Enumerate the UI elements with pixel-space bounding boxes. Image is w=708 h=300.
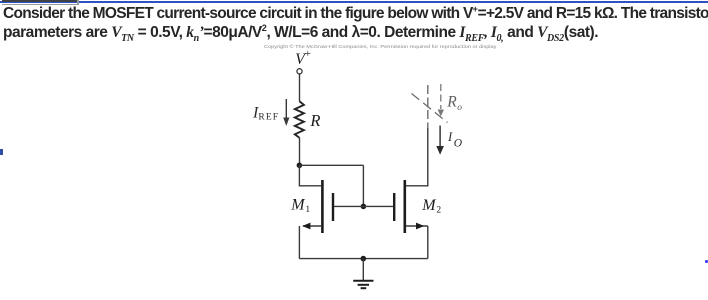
gray tick at segment end [77, 0, 79, 5]
wire M2 drain up [406, 128, 428, 186]
svg-text:2: 2 [436, 206, 441, 216]
Ro dashed current arrow [438, 84, 444, 117]
IREF current arrow [283, 99, 289, 126]
wire node A down to M1 drain [299, 165, 321, 186]
wire M2 source down [427, 226, 429, 259]
wire resistor to node A [299, 138, 301, 166]
label Ro [446, 93, 462, 113]
svg-text:R: R [309, 111, 320, 130]
resistor R [295, 101, 304, 138]
node A junction dot [297, 163, 303, 169]
svg-text:M: M [421, 197, 437, 214]
svg-text:+: + [305, 48, 311, 60]
ground [353, 281, 373, 289]
problem statement text line 1 [3, 5, 708, 23]
wire node A to gate column [299, 164, 363, 166]
wire down to gate node [362, 165, 364, 206]
svg-text:M: M [290, 197, 306, 214]
wire V+ to resistor [299, 74, 301, 101]
bottom junction dot [361, 256, 367, 262]
label M1 [290, 197, 310, 216]
left edge blue mark [0, 149, 3, 155]
svg-text:R: R [446, 93, 457, 110]
IO current arrow [436, 126, 444, 155]
svg-text:I: I [447, 130, 453, 144]
svg-text:1: 1 [305, 205, 310, 215]
transistor M2 [363, 180, 427, 233]
V+ supply label [295, 48, 311, 68]
top dark segment over blue rule [2, 0, 77, 2]
svg-text:O: O [454, 138, 463, 150]
right edge blue dot [705, 260, 708, 263]
gate node junction dot [361, 204, 367, 210]
gray underline of dark segment [2, 4, 79, 5]
top blue rule (full width) [0, 1, 708, 3]
V+ terminal circle [297, 69, 302, 74]
transistor M1 [302, 180, 363, 233]
dashed slash through Ro [412, 94, 448, 123]
dashed output wire (Ro branch) [427, 85, 429, 128]
label M2 [421, 197, 441, 216]
wire M1 source down [298, 226, 300, 259]
svg-text:REF: REF [258, 112, 279, 122]
label IO [447, 130, 463, 150]
label IREF [252, 105, 279, 123]
ground stem [362, 259, 364, 280]
problem statement text line 2 [3, 24, 598, 42]
svg-text:o: o [457, 103, 462, 113]
bottom wire [299, 258, 427, 260]
copyright line [264, 44, 496, 49]
